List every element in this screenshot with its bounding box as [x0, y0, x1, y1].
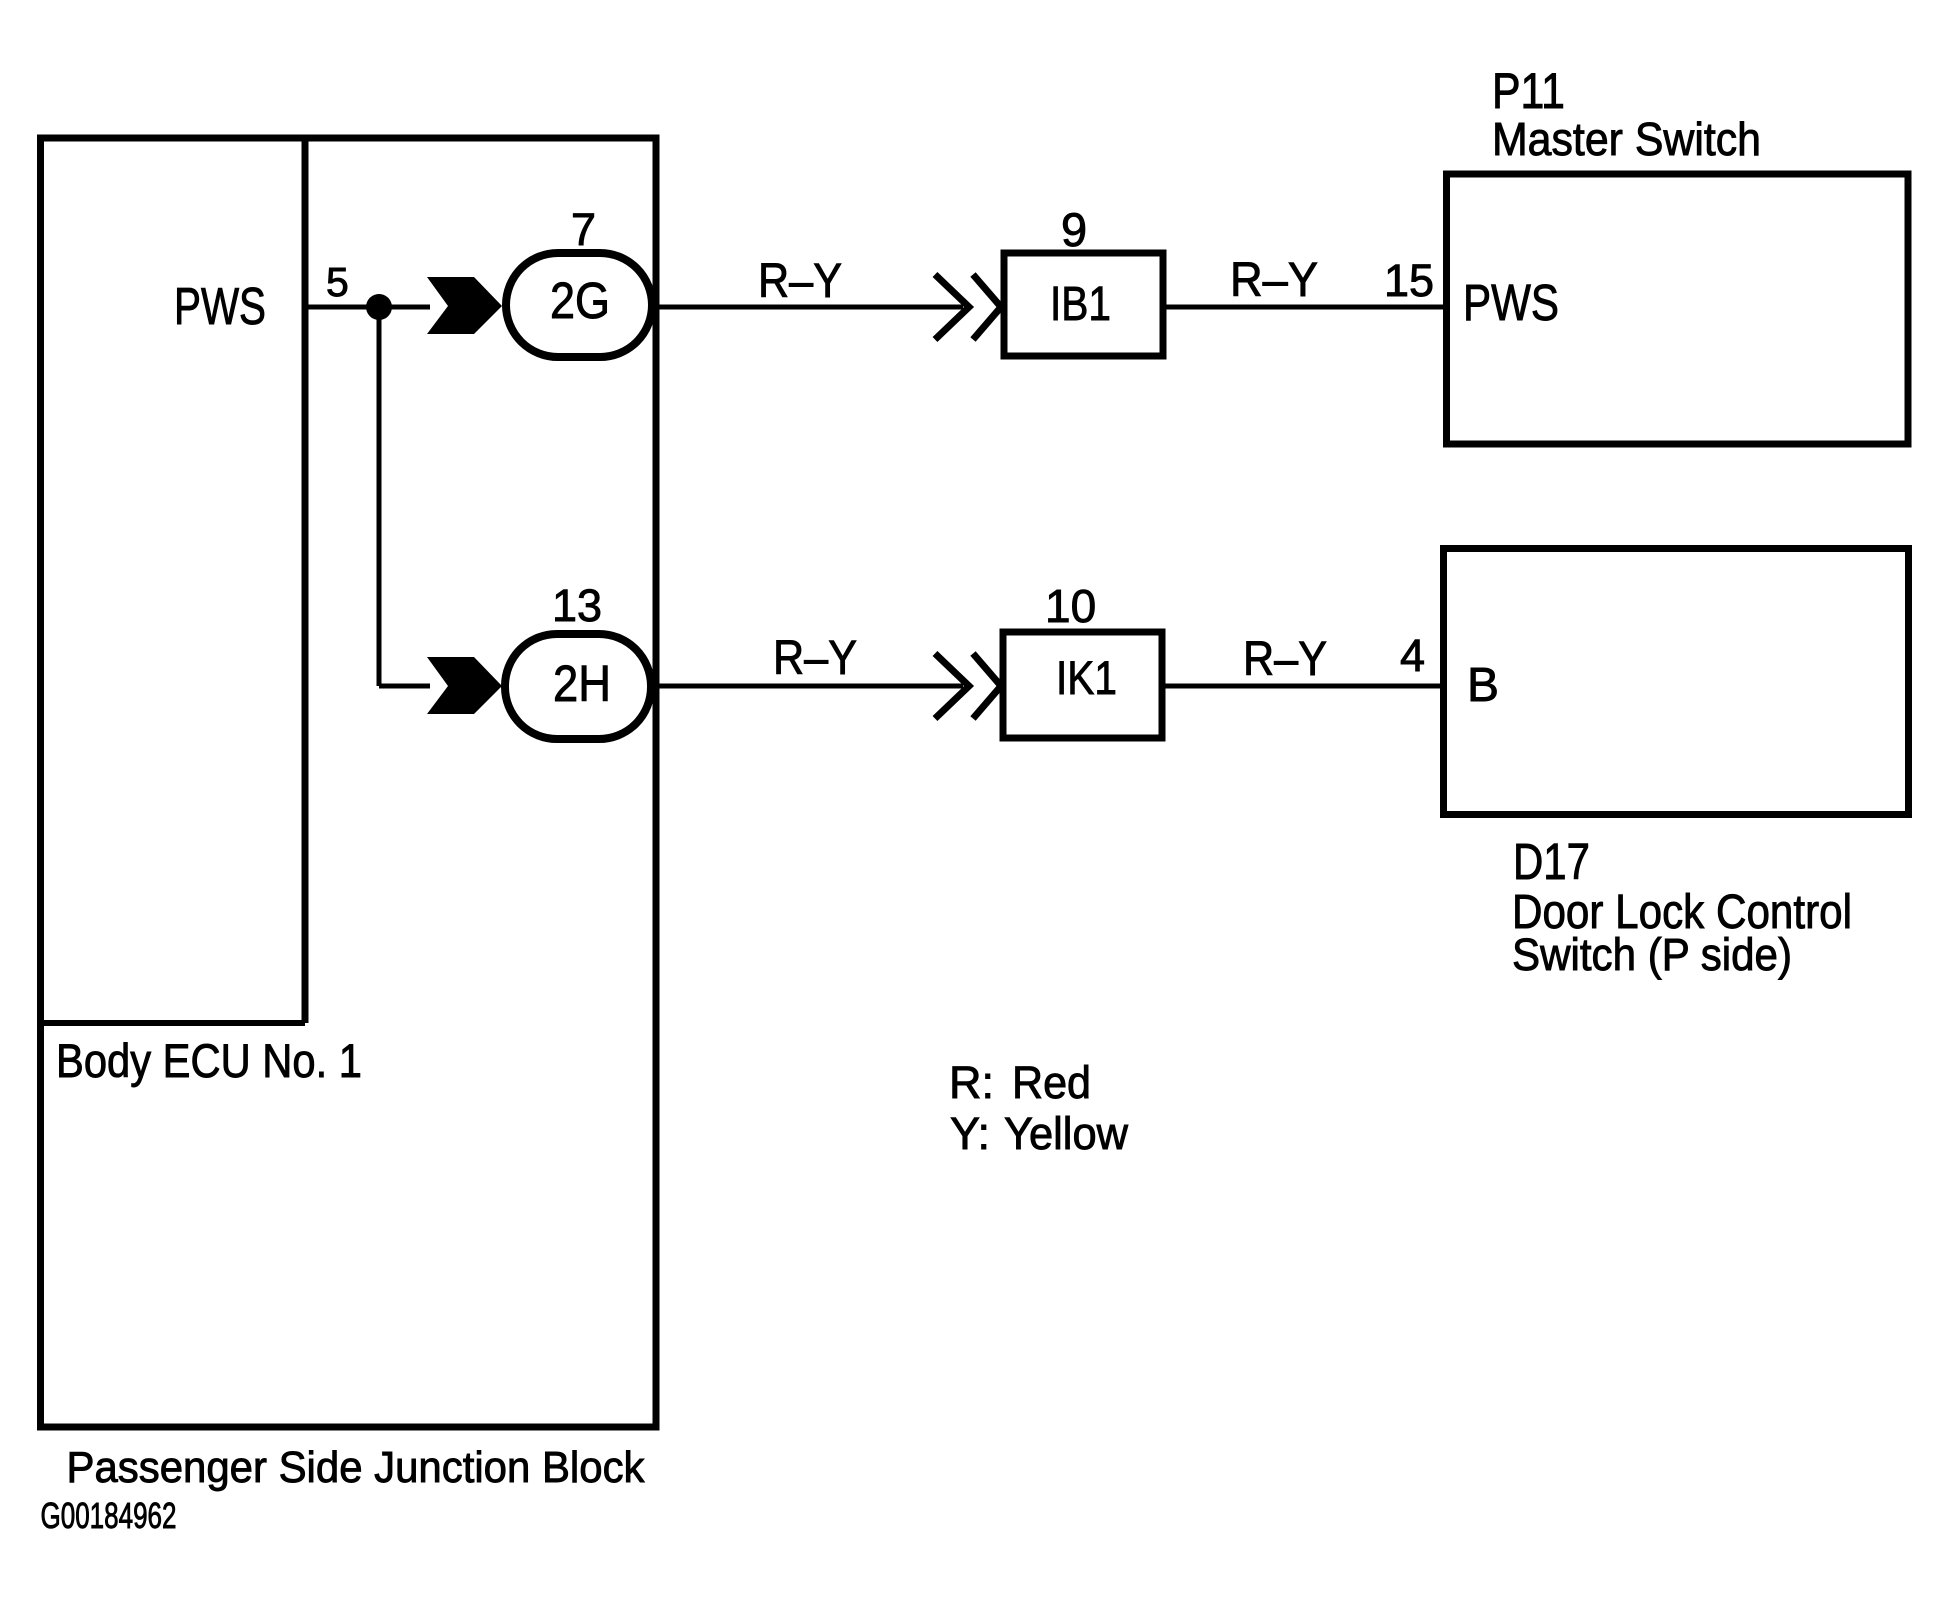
wire 2H to connector IK1 — [652, 684, 963, 689]
wire branch to 2H arrow — [379, 684, 430, 689]
svg-text:B: B — [1467, 659, 1499, 712]
svg-text:PWS: PWS — [174, 278, 266, 336]
svg-text:R:Red: R:Red — [949, 1057, 1091, 1108]
svg-text:P11: P11 — [1492, 63, 1565, 119]
svg-text:2G: 2G — [550, 272, 610, 329]
connector chevron 1 bottom — [935, 654, 969, 719]
svg-text:13: 13 — [552, 580, 602, 631]
svg-text:R–Y: R–Y — [758, 255, 842, 308]
wire IB1 to P11 — [1163, 305, 1445, 310]
connector chevron 1 top — [935, 275, 969, 340]
svg-text:15: 15 — [1384, 255, 1434, 306]
svg-text:5: 5 — [326, 259, 349, 305]
svg-text:Switch (P side): Switch (P side) — [1512, 929, 1792, 980]
svg-text:4: 4 — [1400, 630, 1425, 681]
svg-text:G00184962: G00184962 — [41, 1495, 177, 1536]
svg-text:R–Y: R–Y — [773, 632, 857, 685]
svg-text:IB1: IB1 — [1050, 278, 1111, 331]
svg-text:Y:Yellow: Y:Yellow — [950, 1108, 1128, 1159]
wire IK1 to D17 — [1163, 684, 1445, 689]
wire 2G to connector IB1 — [652, 305, 963, 310]
svg-text:2H: 2H — [553, 655, 611, 712]
connector oval 2H — [505, 634, 651, 739]
wire pin5 from Body ECU to junction — [305, 305, 430, 310]
connector box IK1 — [1003, 632, 1162, 738]
svg-text:IK1: IK1 — [1056, 651, 1117, 704]
svg-text:D17: D17 — [1513, 833, 1590, 890]
component box D17 Door Lock Control Switch — [1444, 549, 1909, 815]
svg-text:Passenger Side Junction Block: Passenger Side Junction Block — [67, 1443, 646, 1492]
svg-text:R–Y: R–Y — [1243, 633, 1327, 686]
connector chevron 2 top — [973, 275, 1001, 340]
arrow into 2H — [427, 657, 502, 714]
svg-text:10: 10 — [1045, 580, 1096, 632]
svg-text:Body ECU No. 1: Body ECU No. 1 — [56, 1034, 362, 1087]
arrow into 2G — [427, 277, 502, 334]
connector oval 2G — [506, 253, 652, 357]
svg-text:7: 7 — [571, 204, 596, 255]
Body ECU No. 1 box bottom edge — [37, 1020, 305, 1026]
connector box IB1 — [1004, 253, 1163, 356]
component box P11 Master Switch — [1447, 174, 1909, 444]
wire branch vertical — [377, 307, 382, 686]
svg-text:R–Y: R–Y — [1230, 254, 1318, 307]
node junction dot — [366, 294, 392, 320]
svg-text:PWS: PWS — [1463, 274, 1559, 331]
Body ECU No. 1 box right edge — [302, 135, 309, 1024]
junction block box (Passenger Side Junction Block) — [41, 138, 657, 1427]
svg-text:Master Switch: Master Switch — [1492, 113, 1761, 165]
connector chevron 2 bottom — [973, 654, 1001, 719]
svg-text:9: 9 — [1061, 203, 1087, 256]
